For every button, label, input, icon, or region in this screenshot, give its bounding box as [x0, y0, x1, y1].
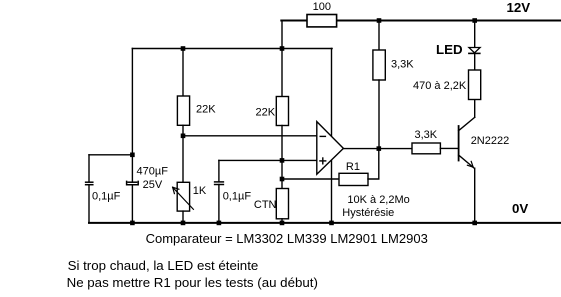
wire C3 lower: [218, 185, 220, 223]
svg-text:470 à 2,2K: 470 à 2,2K: [413, 80, 467, 92]
node ground pot junction: [181, 221, 186, 226]
wire emitter vertical: [474, 168, 476, 223]
transistor emitter arrowhead: [467, 161, 473, 167]
wire 12V rail: [281, 20, 561, 22]
wire 22K R2 top: [182, 49, 184, 97]
capacitor C3 0,1uF: [215, 182, 224, 185]
node rail2 22K R2 junction: [181, 46, 186, 51]
svg-text:22K: 22K: [256, 107, 276, 119]
diode LED cathode bar: [469, 52, 480, 54]
node rail2 22K R3 junction: [280, 46, 285, 51]
wire 470uF lower: [131, 185, 133, 223]
wire base: [440, 147, 458, 149]
svg-text:100: 100: [313, 1, 331, 13]
wire 100 rail left: [281, 20, 307, 22]
wire C1 lower: [88, 185, 90, 223]
transistor Q1 2N2222 base bar: [458, 126, 460, 161]
wire 12V rail to divider top: [281, 21, 283, 49]
svg-text:R1: R1: [346, 161, 360, 173]
wire ground rail 0V: [89, 222, 561, 224]
node inverting junction: [181, 134, 186, 139]
potentiometer P1 1K: [177, 182, 189, 211]
wire pot bottom: [182, 211, 184, 223]
resistor R2 22K: [177, 96, 189, 125]
op-amp plus sign: [320, 158, 326, 164]
op-amp minus sign: [320, 135, 325, 137]
wire R1 right to output: [368, 149, 379, 179]
svg-text:3,3K: 3,3K: [415, 129, 438, 141]
wire R1 left: [282, 178, 339, 180]
resistor R6 3,3K base: [412, 143, 440, 154]
svg-text:22K: 22K: [196, 104, 216, 116]
node ground CTN junction: [280, 221, 285, 226]
resistor R5 100: [307, 15, 337, 27]
wire C1 upper: [88, 155, 90, 182]
svg-text:10K à 2,2Mo: 10K à 2,2Mo: [347, 194, 409, 206]
svg-text:Ne pas mettre R1 pour les test: Ne pas mettre R1 pour les tests (au débu…: [67, 275, 318, 290]
wire 22K R2 bottom to pot: [182, 125, 184, 182]
wire second rail: [132, 48, 332, 50]
wire LED anode: [474, 21, 476, 48]
wire opamp supply vertical: [331, 49, 333, 223]
resistor R4 3,3K pull-up: [373, 50, 385, 80]
transistor emitter diagonal: [459, 155, 475, 168]
svg-text:25V: 25V: [143, 179, 163, 191]
transistor collector diagonal: [459, 117, 475, 130]
resistor R1: [339, 173, 368, 185]
wire 470uF branch upper: [131, 49, 133, 183]
svg-text:LED: LED: [436, 42, 463, 57]
svg-text:Comparateur = LM3302 LM339 LM2: Comparateur = LM3302 LM339 LM2901 LM2903: [146, 231, 428, 246]
wire pull-up bottom: [378, 80, 380, 149]
wire CTN bottom: [281, 219, 283, 223]
resistor R7 470 a 2,2K: [469, 70, 481, 100]
capacitor C2 470uF 25V: [127, 181, 139, 184]
node ground emitter junction: [472, 221, 477, 226]
wire cap link horizontal: [89, 154, 132, 156]
svg-text:CTN: CTN: [254, 199, 277, 211]
wire C3 upper: [218, 160, 220, 181]
node rail R5-R4 junction: [377, 18, 382, 23]
node non-inverting junction: [280, 158, 285, 163]
node rail LED junction: [472, 18, 477, 23]
svg-text:1K: 1K: [193, 185, 207, 197]
node R1 left junction: [280, 177, 285, 182]
node ground 470uF junction: [130, 221, 135, 226]
op-amp U1 comparator: [317, 122, 344, 175]
node ground C3 junction: [217, 221, 222, 226]
svg-text:0,1µF: 0,1µF: [223, 191, 252, 203]
potentiometer arrow: [173, 187, 194, 209]
wire 22K R3 top: [281, 49, 283, 97]
svg-text:Hystérésie: Hystérésie: [342, 207, 394, 219]
svg-text:Si trop chaud, la LED est étei: Si trop chaud, la LED est éteinte: [68, 258, 259, 273]
wire pull-up top: [378, 21, 380, 51]
svg-text:12V: 12V: [507, 0, 531, 15]
node ground opamp junction: [329, 221, 334, 226]
wire non-inverting input: [219, 159, 317, 161]
capacitor C1 0,1uF: [86, 182, 93, 185]
svg-text:3,3K: 3,3K: [391, 59, 414, 71]
wire LED to resistor: [474, 53, 476, 70]
wire collector vertical: [474, 100, 476, 118]
svg-text:0V: 0V: [512, 201, 528, 216]
node output junction: [377, 146, 382, 151]
wire inverting input: [183, 135, 317, 137]
svg-text:470µF: 470µF: [137, 166, 169, 178]
resistor R3 22K: [276, 97, 288, 126]
thermistor CTN: [276, 189, 288, 219]
diode LED symbol: [469, 48, 480, 53]
svg-text:0,1µF: 0,1µF: [92, 190, 121, 202]
node cap link junction: [130, 153, 135, 158]
svg-text:2N2222: 2N2222: [471, 135, 510, 147]
wire op-amp output: [343, 148, 412, 150]
wire 22K R3 bottom to CTN: [281, 126, 283, 189]
